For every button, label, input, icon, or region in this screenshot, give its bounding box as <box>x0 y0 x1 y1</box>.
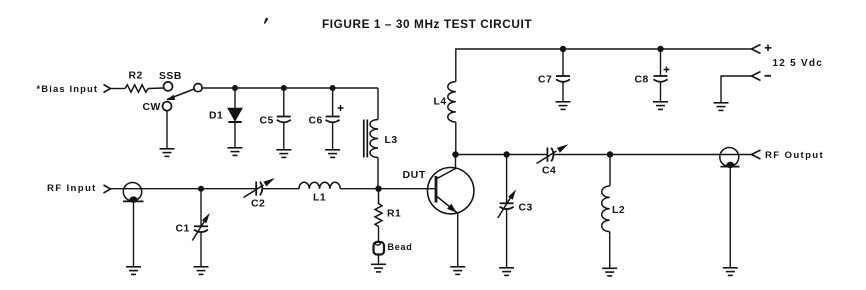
capacitor C6 <box>326 116 340 118</box>
ground (emitter) <box>450 267 465 275</box>
svg-text:L4: L4 <box>434 97 447 108</box>
ground (supply minus) <box>714 103 729 111</box>
wire C6 junction down <box>332 88 334 116</box>
inductor L4 <box>448 82 456 122</box>
wire L3 to base node <box>377 158 379 189</box>
svg-text:C2: C2 <box>251 199 265 210</box>
wire C8 down <box>660 49 662 76</box>
node C7 junction <box>560 46 566 52</box>
node collector junction <box>452 151 458 157</box>
svg-text:C7: C7 <box>538 75 552 86</box>
ground (C7) <box>556 102 571 110</box>
wire emitter to ground <box>457 214 459 267</box>
wire C7 down <box>562 49 564 76</box>
wire collector rail <box>456 154 548 156</box>
svg-text:R2: R2 <box>129 71 143 82</box>
plus sign C6 <box>338 105 344 111</box>
node D1 junction <box>232 85 238 91</box>
ground (CW) <box>160 149 175 157</box>
wire RF output connector to ground <box>729 167 731 267</box>
svg-text:C8: C8 <box>635 75 649 86</box>
capacitor C8 <box>654 75 668 77</box>
diode D1 <box>228 109 241 121</box>
ground (C8) <box>653 102 668 110</box>
switch contact SSB <box>164 82 173 91</box>
ground (C5) <box>276 150 291 158</box>
stray mark <box>264 18 269 24</box>
svg-text:*Bias Input: *Bias Input <box>37 83 99 94</box>
inductor L3 <box>370 120 378 158</box>
terminal RF output arrow <box>752 150 761 159</box>
svg-text:DUT: DUT <box>403 169 426 181</box>
switch pivot contact <box>194 84 202 92</box>
resistor R2 <box>125 85 148 92</box>
connector (RF input) <box>123 183 141 201</box>
svg-text:Bead: Bead <box>388 242 413 252</box>
wire D1 to ground <box>234 122 236 147</box>
wire bias rail corner down to L3 <box>377 88 379 120</box>
ferrite bead <box>374 242 385 255</box>
wire C2 right to L1 <box>262 188 299 190</box>
ground (D1) <box>228 148 243 156</box>
wire L2 to ground <box>609 232 611 268</box>
ground (C6) <box>325 150 340 158</box>
svg-text:C1: C1 <box>176 224 190 235</box>
svg-text:L3: L3 <box>385 135 398 146</box>
wire C7 to ground <box>562 82 564 101</box>
wire C8 to ground <box>660 82 662 101</box>
wire C5 to ground <box>283 123 285 149</box>
node C1 junction <box>198 186 204 192</box>
wire bead to ground <box>378 255 380 264</box>
svg-text:C5: C5 <box>260 116 274 127</box>
switch contact CW <box>163 102 172 111</box>
ground (C3) <box>499 268 514 276</box>
ground (C1) <box>194 267 209 275</box>
wire R1 to bead <box>378 227 380 243</box>
ground (RF input) <box>126 267 141 275</box>
wire C5 junction down <box>283 88 285 116</box>
wire L2 down <box>609 155 611 187</box>
wire C3 to ground <box>506 210 508 267</box>
wire C6 to ground <box>332 123 334 149</box>
ground (RF output) <box>723 268 738 276</box>
capacitor C2 (variable, series) <box>255 182 257 196</box>
svg-text:L2: L2 <box>612 205 625 216</box>
plus sign supply <box>765 45 772 52</box>
wire CW to ground <box>166 110 168 148</box>
wire C1 junction down <box>200 189 202 226</box>
wire bias input to R2 <box>111 88 126 90</box>
node C8 junction <box>657 46 663 52</box>
svg-text:C6: C6 <box>309 116 323 127</box>
capacitor C7 <box>556 75 570 77</box>
switch arm <box>167 89 194 100</box>
svg-text:SSB: SSB <box>159 71 182 82</box>
core bars L3 <box>363 120 365 158</box>
wire L4 top <box>455 122 457 155</box>
connector (RF output) <box>720 148 739 167</box>
wire C1 to ground <box>200 233 202 266</box>
wire L4 to top rail <box>456 49 752 82</box>
svg-text:C3: C3 <box>519 203 533 214</box>
node L2 junction <box>607 151 613 157</box>
wire collector <box>455 155 457 170</box>
wire D1 junction down <box>234 88 236 109</box>
resistor R1 <box>375 189 382 227</box>
wire C3 down <box>506 155 508 203</box>
svg-text:D1: D1 <box>209 111 223 122</box>
wire L1 to base node <box>340 188 436 190</box>
svg-text:12 5 Vdc: 12 5 Vdc <box>773 58 824 69</box>
bias input arrow <box>104 85 111 93</box>
node C3 junction <box>503 151 509 157</box>
wire bias rail <box>202 87 378 89</box>
node C6 junction <box>330 85 336 91</box>
wire R2 to SSB contact <box>148 87 164 90</box>
node base junction <box>375 186 381 192</box>
svg-text:CW: CW <box>143 102 161 113</box>
capacitor C3 (variable) <box>500 202 514 204</box>
terminal plus arrow <box>752 45 761 54</box>
capacitor C4 (variable, series) <box>546 148 548 162</box>
inductor L2 <box>602 186 610 232</box>
svg-text:RF Output: RF Output <box>765 150 824 161</box>
minus sign supply <box>765 75 772 77</box>
ground (bead) <box>371 264 386 272</box>
wire RF input connector to ground <box>133 201 135 266</box>
ground (L2) <box>602 268 617 276</box>
plus sign C8 <box>664 67 670 73</box>
wire C4 to RF output <box>554 154 752 156</box>
svg-text:L1: L1 <box>313 193 326 204</box>
svg-text:FIGURE 1 – 30 MHz TEST CIRCUIT: FIGURE 1 – 30 MHz TEST CIRCUIT <box>322 17 532 31</box>
terminal minus arrow <box>752 72 761 81</box>
svg-text:R1: R1 <box>387 209 401 220</box>
wire RF input <box>111 188 257 190</box>
inductor L1 <box>299 182 340 189</box>
svg-text:C4: C4 <box>542 166 556 177</box>
wire minus terminal <box>721 76 752 102</box>
transistor DUT <box>428 168 474 214</box>
switch arm arrowhead <box>166 95 175 101</box>
capacitor C5 <box>277 116 291 118</box>
capacitor C1 (variable) <box>194 225 208 227</box>
node C5 junction <box>281 85 287 91</box>
svg-text:RF Input: RF Input <box>47 183 97 194</box>
RF input arrow <box>104 185 111 193</box>
